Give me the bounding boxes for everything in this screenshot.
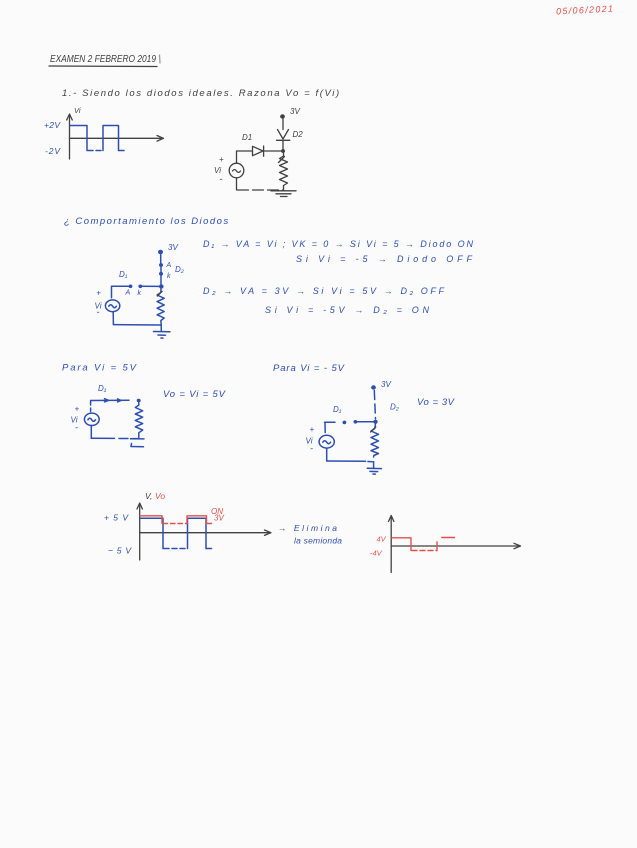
resistor R (circuit 3) — [135, 402, 142, 438]
node A of D2 — [159, 262, 184, 274]
diode D1 — [242, 133, 264, 156]
svg-text:Vi: Vi — [74, 106, 81, 115]
node 3V supply (blue) — [158, 243, 178, 254]
wire source to bottom — [236, 178, 238, 190]
node A of D1 — [119, 270, 132, 297]
axis horizontal (waveform 2) — [140, 530, 271, 535]
wire bottom return (circuit 3) — [91, 437, 114, 439]
wire Vo output wave (red) — [140, 516, 214, 524]
node K of D1 open — [354, 420, 358, 424]
svg-text:D₂: D₂ — [390, 403, 399, 412]
wire bottom return dashed part (circuit 3) — [119, 438, 139, 440]
svg-text:k: k — [167, 273, 171, 280]
node K of D2 — [159, 272, 171, 280]
title EXAMEN 2 FEBRERO 2019 — [49, 53, 160, 67]
axis vertical (waveform 2) — [137, 503, 142, 560]
svg-text:-: - — [97, 307, 100, 317]
svg-text:-: - — [75, 423, 78, 433]
wire source to bottom (circuit 2) — [112, 312, 114, 325]
source Vi (circuit 3) — [71, 405, 100, 433]
note elimina la semionda — [278, 523, 342, 546]
ground (circuit 1) — [271, 191, 296, 197]
problem statement — [62, 88, 340, 99]
svg-text:Vo = 3V: Vo = 3V — [417, 397, 456, 408]
node 3V supply — [280, 107, 300, 119]
svg-text:Si Vi = -5 → Diodo OFF: Si Vi = -5 → Diodo OFF — [296, 254, 472, 264]
wire bottom return — [238, 189, 284, 191]
svg-text:3V: 3V — [168, 243, 178, 252]
node 3V supply (circuit 4) — [371, 380, 391, 390]
svg-text:Para Vi = 5V: Para Vi = 5V — [62, 363, 138, 374]
wire Vi square wave (waveform 2) — [140, 518, 213, 548]
svg-text:Vo: Vo — [155, 491, 165, 501]
svg-text:+: + — [75, 405, 80, 414]
svg-text:1.- Siendo los diodos ideales.: 1.- Siendo los diodos ideales. Razona Vo… — [62, 88, 340, 99]
svg-text:−5V: −5V — [108, 546, 132, 556]
wire source to bottom (circuit 4) — [326, 448, 328, 461]
svg-text:+: + — [96, 288, 101, 297]
wire K to junction — [160, 276, 162, 286]
wire top with D1 shorted — [91, 399, 141, 403]
node junction (circuit 4) — [373, 420, 377, 424]
wire D2 to node — [282, 141, 284, 151]
svg-text:D2: D2 — [293, 130, 304, 139]
svg-text:A: A — [166, 262, 172, 269]
source Vi (circuit 1) — [214, 155, 244, 184]
resistor R (circuit 1) — [279, 152, 288, 190]
svg-text:+5V: +5V — [104, 513, 129, 523]
svg-text:+: + — [310, 425, 315, 434]
ground (circuit 2) — [154, 325, 171, 338]
svg-text:D₁ → VA = Vi ; VK = 0 → Si Vi: D₁ → VA = Vi ; VK = 0 → Si Vi = 5 → Diod… — [203, 239, 473, 249]
axis horizontal (waveform 3) — [391, 543, 520, 548]
node junction (blue) — [159, 284, 164, 288]
svg-text:¿ Comportamiento los Diodos: ¿ Comportamiento los Diodos — [64, 216, 229, 227]
svg-text:Vo = Vi = 5V: Vo = Vi = 5V — [163, 389, 227, 400]
diode D2 — [277, 130, 304, 141]
svg-text:-2V: -2V — [45, 146, 61, 156]
wire left down (circuit 3) — [90, 401, 92, 412]
wire junction left — [358, 421, 374, 423]
svg-text:EXAMEN 2 FEBRERO 2019: EXAMEN 2 FEBRERO 2019 — [50, 53, 156, 65]
wire D1 to source — [237, 151, 253, 163]
svg-text:la semionda: la semionda — [294, 536, 342, 546]
label ON 3V — [211, 507, 224, 523]
source Vi (circuit 4) — [306, 425, 335, 454]
wire A to source corner (circuit 4) — [325, 422, 336, 432]
wire A of D1 to source — [112, 286, 129, 298]
svg-text:D1: D1 — [242, 133, 252, 142]
wire source to bottom (circuit 3) — [90, 426, 92, 439]
svg-text:-: - — [220, 174, 223, 184]
ground (circuit 4) — [367, 462, 381, 475]
ground (circuit 3) — [131, 439, 145, 447]
node A of D1 open — [333, 405, 346, 424]
svg-text:D₁: D₁ — [98, 384, 107, 393]
axis Vi vertical — [67, 114, 73, 159]
wire node to D1 — [265, 150, 282, 152]
source Vi (circuit 2) — [95, 288, 120, 317]
svg-text:3V: 3V — [290, 107, 300, 116]
svg-text:D₁: D₁ — [119, 270, 128, 279]
wire 3V down dashed D2 on — [374, 391, 375, 420]
svg-text:+2V: +2V — [44, 120, 61, 130]
wire Vo wave (waveform 3) — [392, 538, 455, 551]
svg-text:V,: V, — [145, 491, 152, 501]
svg-text:Para Vi = - 5V: Para Vi = - 5V — [273, 363, 346, 374]
resistor R (circuit 4) — [371, 424, 379, 457]
label Vi, Vo — [145, 491, 165, 501]
note comportamiento los diodos — [64, 216, 229, 227]
date 05/06/2021 — [556, 4, 613, 17]
wire Vi square wave — [70, 126, 125, 151]
svg-text:-4V: -4V — [370, 549, 383, 558]
wire A to K — [160, 267, 162, 273]
svg-text:4V: 4V — [377, 535, 387, 544]
svg-text:D₂: D₂ — [175, 265, 184, 274]
axis t horizontal — [70, 136, 164, 142]
svg-text:3V: 3V — [381, 380, 391, 389]
wire 3V to D2 — [282, 119, 284, 130]
wire bottom return (circuit 4) — [327, 460, 366, 462]
wire bottom return (circuit 2) — [113, 324, 161, 326]
node junction Vo — [281, 149, 285, 153]
axis vertical (waveform 3) — [389, 516, 394, 573]
svg-text:+: + — [219, 155, 224, 164]
svg-text:-: - — [310, 444, 313, 454]
wire junction to D1 k — [142, 285, 159, 287]
svg-text:Si Vi = -5V → D₂ = ON: Si Vi = -5V → D₂ = ON — [265, 305, 430, 315]
wire 3V down — [160, 255, 162, 264]
resistor R (circuit 2) — [157, 289, 164, 326]
svg-text:D₁: D₁ — [333, 405, 342, 414]
svg-text:A: A — [125, 290, 131, 297]
wire bottom dashed end (circuit 4) — [368, 461, 372, 463]
svg-text:3V: 3V — [214, 514, 224, 523]
node K of D1 — [138, 285, 143, 298]
svg-text:k: k — [138, 290, 142, 297]
